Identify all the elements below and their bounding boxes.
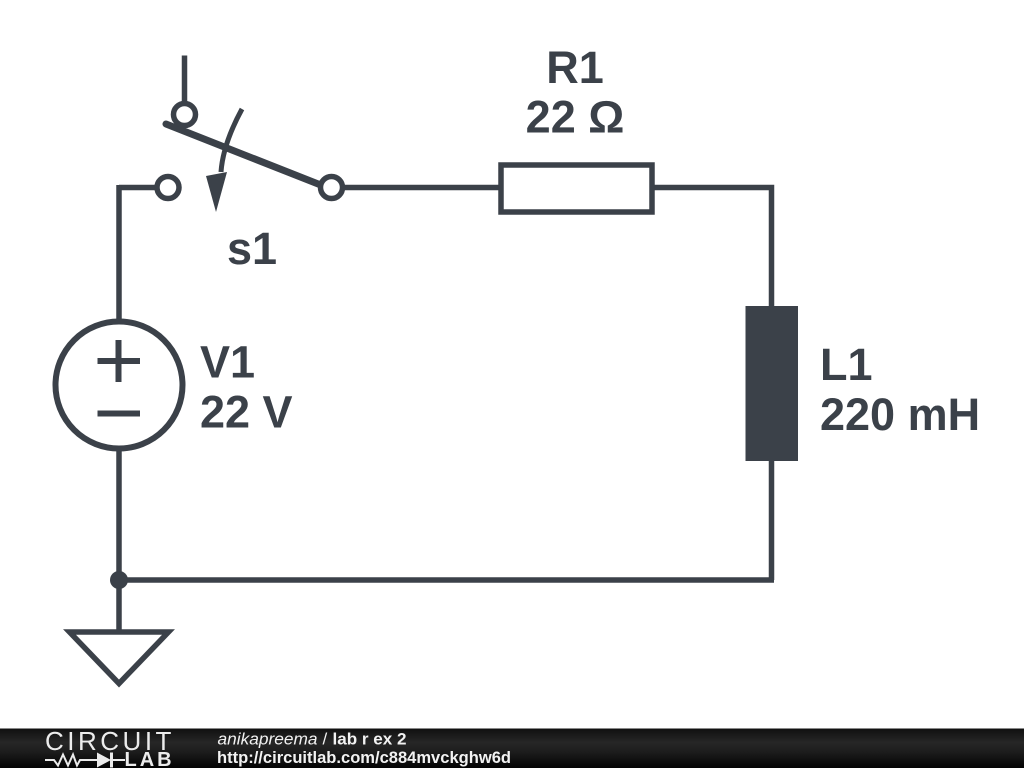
wire left vertical V1 top bbox=[116, 185, 122, 321]
V1 minus sign bbox=[98, 411, 141, 417]
switch S1 bbox=[157, 104, 343, 213]
V1 plus sign bbox=[98, 340, 141, 382]
wire V1 bottom stub bbox=[116, 450, 122, 580]
svg-text:R1: R1 bbox=[546, 42, 604, 93]
ground bbox=[70, 632, 169, 684]
node junction dot bbox=[110, 571, 128, 589]
footer bar bbox=[0, 729, 1024, 768]
switch left terminal circle bbox=[157, 177, 179, 199]
switch pivot circle bbox=[174, 104, 196, 126]
wire left horizontal to switch left terminal bbox=[119, 185, 155, 191]
svg-text:http://circuitlab.com/c884mvck: http://circuitlab.com/c884mvckghw6d bbox=[217, 748, 511, 767]
svg-text:22 V: 22 V bbox=[200, 387, 293, 438]
wire switch top stub bbox=[182, 56, 188, 102]
CircuitLab logo diode triangle bbox=[97, 753, 111, 768]
voltage source V1 bbox=[56, 322, 183, 449]
switch actuation arrow arc bbox=[221, 109, 242, 172]
CircuitLab logo resistor-diode glyph bbox=[45, 753, 125, 768]
wire L1 bottom stub bbox=[769, 461, 775, 580]
svg-text:22 Ω: 22 Ω bbox=[526, 92, 625, 143]
svg-text:220 mH: 220 mH bbox=[820, 389, 980, 440]
wire bottom horizontal bbox=[119, 577, 774, 583]
wire R1 to top-right corner and down to L1 bbox=[655, 188, 772, 307]
svg-text:LAB: LAB bbox=[125, 749, 175, 768]
V1 circle bbox=[56, 322, 183, 449]
svg-text:V1: V1 bbox=[200, 337, 255, 388]
switch arrowhead bbox=[206, 172, 227, 212]
svg-text:anikapreema: anikapreema bbox=[218, 730, 318, 749]
resistor R1 bbox=[501, 165, 652, 212]
svg-text:/: / bbox=[323, 730, 328, 749]
svg-text:L1: L1 bbox=[820, 339, 873, 390]
svg-text:lab r ex 2: lab r ex 2 bbox=[333, 730, 407, 749]
switch right terminal circle bbox=[321, 177, 343, 199]
svg-text:s1: s1 bbox=[227, 223, 277, 274]
wire ground stub bbox=[116, 580, 122, 632]
inductor L1 bbox=[746, 306, 799, 461]
switch blade bbox=[166, 124, 322, 186]
wire switch right terminal to R1 bbox=[345, 185, 499, 191]
